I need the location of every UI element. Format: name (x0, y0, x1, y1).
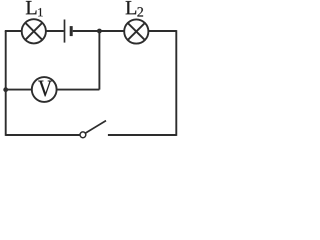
switch S (open) (80, 121, 176, 138)
label L1 (26, 1, 43, 16)
voltmeter (32, 77, 57, 102)
node A junction dot (97, 29, 102, 34)
wire battery to node A (73, 30, 100, 32)
lamp L1 (22, 19, 46, 43)
wire right vertical (175, 30, 177, 136)
wire voltmeter branch horizontal to voltmeter (57, 89, 100, 91)
wire lamp L2 to top-right corner (148, 30, 176, 32)
wire voltmeter branch vertical from node A (98, 31, 100, 90)
wire bottom: corner to switch (6, 134, 80, 136)
node B junction dot (3, 87, 8, 92)
battery cell (65, 20, 72, 43)
wire left vertical (5, 31, 7, 136)
label V inside voltmeter (38, 81, 52, 97)
wire node A to lamp L2 (99, 30, 124, 32)
wire top: left wire to lamp L1 (5, 30, 21, 32)
wire voltmeter to node B (6, 89, 32, 91)
label L2 (126, 1, 143, 16)
wire lamp L1 to battery (46, 30, 64, 32)
lamp L2 (124, 19, 148, 43)
